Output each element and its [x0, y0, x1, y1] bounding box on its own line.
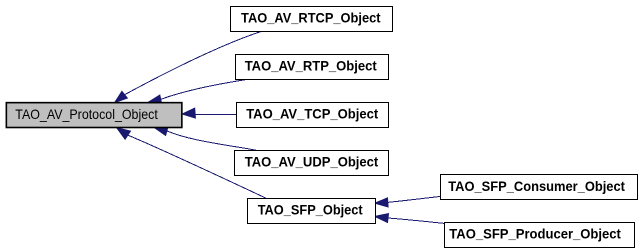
node TAO_AV_RTP_Object: [236, 55, 389, 80]
edge TAO_AV_RTP_Object to TAO_AV_Protocol_Object: [149, 79, 250, 104]
node TAO_AV_RTCP_Object: [231, 7, 393, 32]
node TAO_AV_UDP_Object: [235, 151, 389, 176]
edge TAO_AV_TCP_Object to TAO_AV_Protocol_Object: [182, 108, 236, 118]
svg-text:TAO_SFP_Object: TAO_SFP_Object: [258, 202, 363, 218]
svg-text:TAO_AV_TCP_Object: TAO_AV_TCP_Object: [246, 106, 378, 122]
svg-text:TAO_AV_RTCP_Object: TAO_AV_RTCP_Object: [241, 10, 381, 26]
edge TAO_AV_RTCP_Object to TAO_AV_Protocol_Object: [115, 32, 261, 103]
node TAO_SFP_Producer_Object: [445, 223, 635, 248]
edge TAO_SFP_Object to TAO_AV_Protocol_Object: [117, 128, 266, 199]
edge TAO_SFP_Producer_Object to TAO_SFP_Object: [375, 214, 444, 224]
svg-text:TAO_AV_UDP_Object: TAO_AV_UDP_Object: [245, 154, 379, 170]
node TAO_SFP_Consumer_Object: [441, 175, 638, 200]
edge TAO_SFP_Consumer_Object to TAO_SFP_Object: [375, 196, 441, 207]
node TAO_SFP_Object: [248, 199, 376, 224]
svg-text:TAO_SFP_Consumer_Object: TAO_SFP_Consumer_Object: [448, 178, 625, 194]
node TAO_AV_TCP_Object: [237, 103, 389, 128]
edge TAO_AV_UDP_Object to TAO_AV_Protocol_Object: [154, 127, 256, 151]
svg-text:TAO_SFP_Producer_Object: TAO_SFP_Producer_Object: [449, 226, 621, 242]
svg-text:TAO_AV_Protocol_Object: TAO_AV_Protocol_Object: [15, 106, 158, 122]
svg-text:TAO_AV_RTP_Object: TAO_AV_RTP_Object: [245, 58, 377, 74]
node TAO_AV_Protocol_Object: [6, 103, 182, 128]
